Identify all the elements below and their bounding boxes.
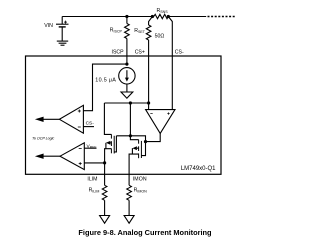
node gate/drain cross xyxy=(129,134,132,137)
resistor RSNS xyxy=(154,14,169,18)
svg-text:Figure 9-8. Analog Current Mon: Figure 9-8. Analog Current Monitoring xyxy=(78,228,212,237)
comparator U3 xyxy=(60,143,84,170)
node CS- tap xyxy=(167,15,170,18)
svg-text:IMON: IMON xyxy=(133,176,147,182)
wire M1 gate xyxy=(114,136,116,152)
ground xyxy=(57,40,68,42)
wire internal rail xyxy=(104,102,148,104)
ground ILIM xyxy=(100,216,110,224)
M1 body arrow xyxy=(110,142,111,144)
node ILIM xyxy=(103,161,106,164)
wire U1 output xyxy=(146,133,161,141)
svg-text:CS+: CS+ xyxy=(135,50,145,56)
resistor RISCP xyxy=(126,17,128,24)
svg-text:50Ω: 50Ω xyxy=(155,33,165,39)
wire rail right of RSNS xyxy=(168,16,206,18)
svg-text:CS-: CS- xyxy=(86,121,95,127)
IC box LM749x0-Q1 xyxy=(26,56,222,174)
node ISCP internal xyxy=(125,63,128,66)
comparator U2 xyxy=(59,105,83,133)
wire M1 drain xyxy=(104,103,111,134)
wire CS+ pin xyxy=(148,40,150,110)
resistor RSET xyxy=(149,17,153,26)
current source I1 10.5uA xyxy=(119,68,135,84)
wire M2 drain xyxy=(130,103,138,140)
wire to comparator U2 + input xyxy=(83,64,127,111)
battery VIN xyxy=(61,17,63,25)
svg-text:CS-: CS- xyxy=(175,50,184,56)
wire U3 + to ILIM node xyxy=(84,162,104,164)
ground internal arrow xyxy=(121,92,133,98)
wire dashed continuation xyxy=(208,16,236,18)
resistor RIMON xyxy=(127,185,132,200)
op-amp U1 xyxy=(146,110,175,134)
wire ISCP pin xyxy=(126,39,128,65)
wire CS- stub U2 xyxy=(83,126,94,128)
node M2 drain rail xyxy=(129,101,132,104)
svg-text:To OCP Logic: To OCP Logic xyxy=(32,136,54,140)
wire U3 output xyxy=(43,155,60,157)
node gate net xyxy=(144,140,147,143)
wire M1 source xyxy=(105,149,112,163)
wire top rail xyxy=(62,16,154,18)
wire M2 gate xyxy=(141,142,145,156)
node CS+ rail xyxy=(147,101,150,104)
svg-text:ILIM: ILIM xyxy=(87,176,97,182)
ground IMON xyxy=(124,216,134,224)
wire ILIM pin xyxy=(104,163,106,185)
svg-text:10.5 μA: 10.5 μA xyxy=(95,78,116,84)
svg-text:LM749x0-Q1: LM749x0-Q1 xyxy=(181,166,216,172)
wire gate net xyxy=(116,136,145,142)
transistor M1 xyxy=(110,134,112,138)
svg-text:ISCP: ISCP xyxy=(112,50,125,56)
M2 body arrow xyxy=(137,147,139,149)
svg-text:VIN: VIN xyxy=(44,23,53,29)
resistor RILIM xyxy=(102,185,107,200)
node ISCP tap xyxy=(125,15,128,18)
wire current source to arrow xyxy=(126,84,128,92)
transistor M2 xyxy=(138,140,140,144)
wire M2 source xyxy=(129,154,139,185)
wire VREF stub U3 xyxy=(84,147,96,149)
wire U2 output xyxy=(43,118,59,120)
wire CS- pin xyxy=(168,17,172,110)
node RSET tap xyxy=(151,15,154,18)
